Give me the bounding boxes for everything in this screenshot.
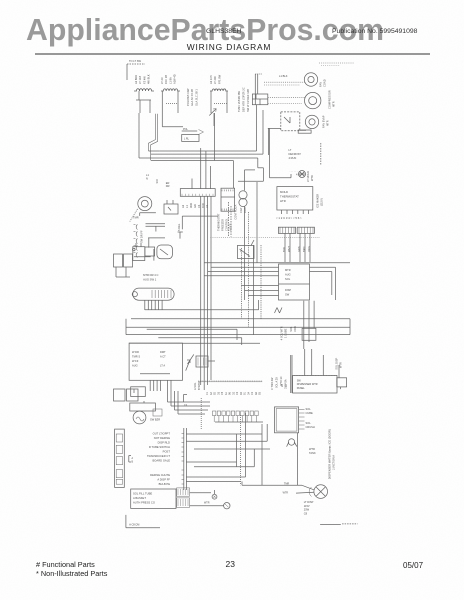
pin bracket AB <box>128 456 130 463</box>
svg-text:CUBE: CUBE <box>306 411 313 415</box>
svg-text:TMR: TMR <box>284 482 289 485</box>
svg-text:LT DISP: LT DISP <box>304 500 314 504</box>
rail riser a <box>125 319 127 335</box>
plug connectors <box>177 488 190 496</box>
svg-text:GRN: GRN <box>297 246 301 252</box>
wire into lamp 1 <box>302 485 314 490</box>
relay box above buzzer <box>114 389 126 401</box>
terminal row <box>213 411 216 416</box>
bus rail 2 <box>151 153 263 155</box>
lamp dispenser <box>314 485 328 499</box>
svg-text:NOT DEFINE: NOT DEFINE <box>154 436 170 440</box>
svg-text:RUN: RUN <box>243 207 247 213</box>
svg-text:THERMOSTAT: THERMOSTAT <box>280 195 299 199</box>
door switch box pair <box>114 254 123 267</box>
svg-text:FAN EVAP: FAN EVAP <box>322 115 326 128</box>
svg-text:A BASKET: A BASKET <box>133 496 146 500</box>
svg-text:< 1 2 C 3 4 > < 5 6 >: < 1 2 C 3 4 > < 5 6 > <box>276 216 302 220</box>
wire switch to evap fan <box>300 129 306 131</box>
svg-text:A SOL: A SOL <box>193 382 197 390</box>
svg-text:TO LT SW: TO LT SW <box>129 59 142 63</box>
svg-text:GD: GD <box>193 204 197 208</box>
small box right <box>337 378 347 387</box>
svg-text:AUG: AUG <box>132 364 138 368</box>
svg-text:SOL A 2B: SOL A 2B <box>276 377 279 388</box>
wire dashed drop <box>228 202 230 237</box>
lamp small 1 <box>190 492 211 494</box>
svg-text:LT: LT <box>289 148 292 152</box>
svg-text:LT A: LT A <box>160 364 165 368</box>
svg-text:DEFROST: DEFROST <box>289 152 302 156</box>
heater loop <box>288 439 294 445</box>
svg-text:SW: SW <box>297 380 302 383</box>
water tank pins <box>299 408 305 410</box>
svg-text:A2: A2 <box>181 204 185 208</box>
bus rail riser 4 <box>232 161 234 189</box>
wire bends from board pins <box>167 391 169 402</box>
title rule <box>35 53 430 55</box>
door switch shape <box>157 245 173 259</box>
svg-text:L RL: L RL <box>184 138 190 141</box>
svg-text:05/07: 05/07 <box>403 561 424 570</box>
junction box <box>252 94 267 105</box>
wire to compressor <box>268 97 305 99</box>
svg-text:BRN: BRN <box>302 246 306 252</box>
wire to condenser fan <box>264 81 305 83</box>
wire relay runs <box>182 215 218 217</box>
terminal row bus <box>215 421 263 423</box>
zig marks <box>275 308 278 314</box>
svg-text:TANK: TANK <box>309 451 316 455</box>
svg-text:(115V): (115V) <box>320 198 324 206</box>
svg-text:AUG SW 1: AUG SW 1 <box>143 278 157 282</box>
svg-text:WTR 1C: WTR 1C <box>280 376 283 386</box>
dotted run <box>210 237 320 239</box>
ice maker connector A <box>278 227 295 233</box>
left connector strip <box>115 429 125 487</box>
svg-text:ICE MAKER: ICE MAKER <box>316 194 320 208</box>
svg-text:ORG: ORG <box>307 246 311 252</box>
verticals into panel <box>304 349 306 376</box>
svg-text:LT MOLD: LT MOLD <box>306 171 310 182</box>
svg-text:FREEZER: FREEZER <box>221 219 225 231</box>
control board pins <box>149 380 151 391</box>
wire watertank drop <box>297 433 299 485</box>
svg-text:MTR: MTR <box>326 120 330 126</box>
lower small wires <box>148 237 165 239</box>
small box mid right <box>302 328 316 340</box>
svg-text:SIR: SIR <box>156 179 159 183</box>
connector small right of board <box>196 356 208 367</box>
lamp L2 wires <box>161 91 163 127</box>
svg-text:A3 1C5: A3 1C5 <box>209 75 213 84</box>
svg-text:DISP: DISP <box>285 288 291 292</box>
wires right of box <box>310 266 336 268</box>
control box right <box>221 188 235 211</box>
svg-text:HTR: HTR <box>280 199 286 203</box>
svg-text:SOL: SOL <box>306 407 312 411</box>
small box below board <box>131 387 146 397</box>
lamp L3 wires <box>210 91 212 113</box>
door rail pair <box>146 223 166 225</box>
svg-text:MTR DR 4 C: MTR DR 4 C <box>143 273 158 277</box>
lamp L3 coil <box>210 89 228 91</box>
svg-text:WTR: WTR <box>310 175 314 181</box>
wires above connector <box>200 166 202 189</box>
svg-text:2A: 2A <box>205 205 209 208</box>
relay small mid <box>182 130 198 132</box>
svg-text:A DISP FF: A DISP FF <box>157 478 170 482</box>
svg-text:THERMOSTAT: THERMOSTAT <box>217 213 221 231</box>
svg-text:WHT: WHT <box>287 246 291 252</box>
svg-text:POST: POST <box>163 450 171 454</box>
svg-text:N: N <box>146 177 148 181</box>
svg-text:FAN: FAN <box>319 82 323 87</box>
dispenser panel box <box>293 376 337 394</box>
svg-text:A DEF: A DEF <box>229 223 233 231</box>
defrost switch box <box>281 112 300 131</box>
bus rail 4 <box>214 113 216 161</box>
svg-text:C TMR 4W: C TMR 4W <box>271 377 274 390</box>
wire cap feed <box>245 169 256 171</box>
label small top box <box>298 130 311 133</box>
svg-text:23: 23 <box>226 559 236 569</box>
wire coil B leg bend <box>162 126 183 128</box>
svg-text:COMPRESSOR: COMPRESSOR <box>328 90 332 109</box>
terminal row wires down <box>213 416 215 422</box>
svg-text:DISPENSER WATER &amp; ICE (DOO: DISPENSER WATER &amp; ICE (DOOR) <box>328 429 332 479</box>
svg-text:DEF HTR LT/FZR 2C: DEF HTR LT/FZR 2C <box>241 87 245 112</box>
svg-text:BOARD GALE: BOARD GALE <box>153 459 171 463</box>
small box lower <box>145 247 155 256</box>
bottom run wire <box>242 484 302 486</box>
tick <box>178 231 183 233</box>
buzzer <box>133 411 146 424</box>
svg-text:SW: SW <box>285 293 290 297</box>
svg-text:DISP 8A: DISP 8A <box>285 379 288 389</box>
svg-text:# Functional Parts: # Functional Parts <box>36 560 95 569</box>
svg-text:A1W 4D: A1W 4D <box>173 74 177 84</box>
water tank box <box>275 407 299 433</box>
svg-text:FFC 1B: FFC 1B <box>164 75 168 84</box>
svg-text:A CT: A CT <box>160 355 166 359</box>
rail mid 4 <box>126 334 350 336</box>
lamp L2 coil <box>161 89 180 91</box>
svg-text:R TUBE SWITCH: R TUBE SWITCH <box>149 445 170 449</box>
svg-text:POU 8FZ C4W: POU 8FZ C4W <box>186 88 190 106</box>
timer motor <box>138 197 152 211</box>
verticals bottom mid <box>236 434 238 467</box>
svg-text:115V: 115V <box>304 504 310 508</box>
svg-text:A CKCM: A CKCM <box>129 523 140 527</box>
defrost relay box <box>164 204 178 214</box>
run capacitor <box>239 191 247 199</box>
bottom bracket <box>125 515 127 528</box>
bracket small <box>183 395 185 403</box>
arrow zig <box>186 360 190 371</box>
bus rail 1 <box>159 150 256 152</box>
dashed drop mid <box>200 398 202 429</box>
svg-text:1 CUBE: 1 CUBE <box>284 328 288 338</box>
wire into lamp 2 <box>296 491 314 494</box>
svg-text:TMR S: TMR S <box>132 355 140 359</box>
svg-text:SW BZR: SW BZR <box>150 418 160 422</box>
svg-text:FZ 4W: FZ 4W <box>142 76 146 84</box>
left switch column <box>130 209 138 222</box>
svg-text:TMR: TMR <box>133 216 139 220</box>
cable pair <box>290 355 292 393</box>
svg-text:SOL: SOL <box>289 326 293 332</box>
svg-text:TRANSDUCER CT: TRANSDUCER CT <box>147 454 170 458</box>
svg-text:DR: DR <box>166 184 170 188</box>
bus rail 3 <box>138 126 140 158</box>
svg-text:POL: POL <box>183 128 188 131</box>
svg-text:PANEL: PANEL <box>297 387 306 390</box>
wire right rails <box>254 74 256 105</box>
water valve box <box>279 264 310 300</box>
rail mid 2 <box>131 318 350 320</box>
svg-text:L1 BLK: L1 BLK <box>279 74 288 78</box>
svg-text:CONTROL A: CONTROL A <box>234 204 238 219</box>
wires into water valve <box>211 266 279 268</box>
svg-text:LT 2FF: LT 2FF <box>213 75 217 84</box>
vertical connector mid <box>183 428 185 490</box>
svg-text:3DR: 3DR <box>189 203 193 208</box>
svg-text:COND: COND <box>323 79 327 87</box>
svg-text:GLHS38EH: GLHS38EH <box>206 28 242 35</box>
svg-text:WTR: WTR <box>283 492 289 495</box>
wire dashed riser <box>320 143 322 165</box>
rail mid 1 <box>145 309 259 311</box>
wires below connectors <box>284 233 286 262</box>
bus rail riser 1 <box>256 105 258 151</box>
svg-text:GLA SLC 2B 1: GLA SLC 2B 1 <box>194 89 198 106</box>
auger bar pins <box>144 300 146 310</box>
svg-text:WIRING DIAGRAM: WIRING DIAGRAM <box>187 42 271 52</box>
bus rail riser 3 <box>269 128 271 177</box>
lamp L1 coil <box>134 89 154 91</box>
wires right of connector <box>186 433 262 435</box>
svg-text:4 5: 4 5 <box>296 173 300 177</box>
condenser fan motor <box>304 73 317 86</box>
rail mid 5 <box>129 342 260 344</box>
svg-text:GLA SC 15 2B: GLA SC 15 2B <box>190 89 194 106</box>
connector row bar <box>198 380 262 382</box>
svg-text:MTR: MTR <box>332 101 336 107</box>
arrow tick <box>209 109 216 116</box>
svg-text:AUTH PRESS CO: AUTH PRESS CO <box>133 501 155 505</box>
svg-text:TMR / LT/FZR 8W: TMR / LT/FZR 8W <box>237 90 241 112</box>
svg-text:* Non-Illustrated Parts: * Non-Illustrated Parts <box>36 569 108 578</box>
svg-text:4W BLK: 4W BLK <box>147 74 151 84</box>
rail extra 2 <box>158 337 241 339</box>
svg-text:MTR: MTR <box>285 268 291 272</box>
rail mid 3 <box>126 326 350 328</box>
svg-text:CRU: CRU <box>293 326 297 332</box>
svg-text:BLK: BLK <box>282 247 286 252</box>
svg-text:LT 2C: LT 2C <box>160 77 164 84</box>
main connector strip <box>180 189 215 197</box>
bus rail risers 2 <box>200 148 202 166</box>
svg-text:CONTROL: CONTROL <box>225 218 229 231</box>
compressor motor <box>305 92 321 108</box>
svg-text:WTR: WTR <box>309 447 315 451</box>
label top dotted <box>319 62 354 64</box>
svg-text:W FZ: W FZ <box>132 359 139 363</box>
wires below water valve <box>303 301 305 349</box>
svg-text:FF1 8W: FF1 8W <box>217 74 221 84</box>
rail extra 1 <box>147 328 237 330</box>
bus vertical right cluster <box>241 248 243 319</box>
svg-text:DMT: DMT <box>160 350 166 354</box>
legend lines <box>320 524 341 526</box>
svg-text:DISP RLD: DISP RLD <box>158 441 170 445</box>
svg-text:S REL: S REL <box>177 223 181 231</box>
rail mid 0 <box>204 262 350 264</box>
wire under timer <box>140 212 156 214</box>
wire S-bend pair <box>151 114 158 160</box>
wire to lamp <box>270 177 292 179</box>
svg-text:JUNCTION A: JUNCTION A <box>333 455 336 470</box>
wire top-left bracket <box>127 63 145 65</box>
switch box right <box>237 246 254 259</box>
svg-text:BULB PE: BULB PE <box>159 482 171 486</box>
svg-text:WTR: WTR <box>204 502 210 505</box>
bus vertical cluster <box>200 196 202 385</box>
evap fan motor <box>305 115 318 128</box>
stair corner 1 <box>257 158 259 168</box>
svg-text:CRUSH: CRUSH <box>306 425 315 429</box>
svg-text:L1 8A: L1 8A <box>168 77 172 84</box>
svg-text:SOL FILL TUBE: SOL FILL TUBE <box>133 492 152 496</box>
svg-text:SOL: SOL <box>306 421 312 425</box>
svg-text:DISPENSER WTR: DISPENSER WTR <box>297 383 318 386</box>
svg-text:A2 8RD: A2 8RD <box>134 75 138 84</box>
svg-text:SOL: SOL <box>285 277 291 281</box>
svg-text:AUG: AUG <box>285 273 291 277</box>
svg-text:W DR: W DR <box>132 350 139 354</box>
ice maker pins <box>281 210 283 214</box>
svg-text:LT 1FZ: LT 1FZ <box>138 75 142 84</box>
lamp L1 wires <box>138 91 140 100</box>
solenoid fill box <box>131 489 176 508</box>
ice maker box <box>277 187 313 210</box>
svg-text:Publication No. 5995491098: Publication No. 5995491098 <box>332 28 418 35</box>
svg-text:MOLD: MOLD <box>280 190 288 194</box>
ice maker connector B <box>297 227 314 233</box>
auger motor bar <box>133 288 174 300</box>
svg-text:SW DR FF: SW DR FF <box>140 230 144 243</box>
lamp small 2 <box>190 505 224 507</box>
bus rail riser 2 <box>262 110 264 154</box>
lamp indicator <box>299 171 306 178</box>
svg-text:B WTR: B WTR <box>197 382 201 390</box>
door switch box A <box>133 247 145 261</box>
svg-text:CAP: CAP <box>239 207 243 213</box>
svg-text:4 SOL WTR: 4 SOL WTR <box>280 326 284 340</box>
svg-text:SW LT FZ DEF 14B: SW LT FZ DEF 14B <box>246 89 250 112</box>
svg-text:OUT LT/OPPT: OUT LT/OPPT <box>153 432 171 436</box>
svg-text:4 RUN: 4 RUN <box>289 156 297 160</box>
svg-text:SOL DISP: SOL DISP <box>335 358 339 370</box>
svg-text:DEFINE CHUTE: DEFINE CHUTE <box>150 473 170 477</box>
svg-text:C8: C8 <box>304 511 308 515</box>
control board box <box>129 343 182 380</box>
svg-text:25W: 25W <box>304 508 310 512</box>
label buzzer <box>153 409 162 416</box>
